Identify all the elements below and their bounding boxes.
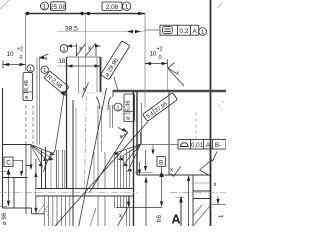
dim frame dia 16,46 vertical left <box>23 73 33 101</box>
svg-text:x: x <box>79 46 82 52</box>
svg-text:x: x <box>83 87 86 93</box>
boss left edge <box>66 57 68 188</box>
boss right edge <box>100 57 102 92</box>
svg-text:1: 1 <box>218 214 225 218</box>
symmetry symbol <box>163 27 173 34</box>
chamfer callout left on boss top <box>67 44 73 47</box>
chamfer callout right on boss top <box>95 44 101 47</box>
GDT top leader <box>145 29 160 31</box>
dim frame 5,4x37,98 rotated <box>143 93 178 122</box>
svg-text:B-: B- <box>215 142 221 149</box>
long leader diagonal D2 <box>79 88 107 226</box>
chamfer x mark left top <box>39 56 45 59</box>
body verticals left pair <box>41 150 43 189</box>
dim frame dia 29,98 rotated steep <box>101 41 130 80</box>
balloon 1 after GDT <box>199 28 207 36</box>
dia 96 dimension <box>0 171 7 173</box>
dim arrow right <box>138 12 145 16</box>
surface x mark on shoulder <box>82 83 89 98</box>
left 10 dimension line <box>3 64 26 66</box>
extension dashes above frame <box>195 112 197 138</box>
svg-text:1: 1 <box>116 105 119 111</box>
svg-text:1: 1 <box>43 3 47 10</box>
svg-text:0: 0 <box>20 55 23 61</box>
body verticals right group2 <box>114 152 116 208</box>
38,5 arrows <box>127 30 133 33</box>
balloon 1 for R2,98 <box>41 66 48 73</box>
axis centerline left <box>0 191 36 193</box>
svg-text:x: x <box>176 71 179 77</box>
svg-text:10: 10 <box>7 51 14 58</box>
left flange outline <box>3 177 28 179</box>
shoulder line left <box>62 91 67 93</box>
chamfer callout center bottom leader <box>89 133 128 194</box>
svg-text:⌀ 16,46: ⌀ 16,46 <box>24 80 30 99</box>
sheet corner diagonal top-left <box>0 0 9 9</box>
chamfer x leader right upper <box>168 63 176 74</box>
taper line left of boss <box>55 94 64 152</box>
axis centerline through band <box>36 191 137 193</box>
body verticals mid pair <box>75 108 77 188</box>
fillet arcs right of boss <box>96 97 100 109</box>
balloon 1 top-left <box>41 2 49 10</box>
datum C leader <box>13 160 23 173</box>
hidden dashed lines below left label <box>25 105 27 144</box>
sheet corner tick top-right <box>217 2 223 8</box>
long leader diagonal D1 <box>55 122 148 227</box>
body verticals dense group <box>56 150 58 189</box>
svg-text:x: x <box>120 135 123 141</box>
right fan tail <box>140 132 142 145</box>
small dim below serrated part <box>128 196 130 205</box>
38,5 dimension line <box>57 31 145 33</box>
svg-text:x: x <box>214 182 217 188</box>
svg-text:0,01: 0,01 <box>191 142 204 149</box>
svg-text:1: 1 <box>125 4 129 11</box>
center mark dashes <box>78 92 113 94</box>
svg-text:0: 0 <box>159 55 162 61</box>
GDT bottom leader <box>137 143 178 145</box>
hook at left end of thick edge <box>112 90 114 97</box>
balloon 1 boss chamfer <box>60 45 68 53</box>
slot band <box>36 189 133 196</box>
svg-text:1: 1 <box>201 29 205 36</box>
datum C arrow below box <box>7 168 11 174</box>
dim line x=35.9 <box>35 159 37 214</box>
check mark under frame <box>210 152 217 162</box>
boss top edge <box>67 56 101 58</box>
fillet arc on flange corner <box>44 151 56 172</box>
dim node dot mid-right <box>87 12 90 15</box>
dim frame 2,08 <box>102 2 122 11</box>
body verticals right group <box>93 152 95 189</box>
short horizontal near serration <box>175 197 184 199</box>
svg-text:+2: +2 <box>157 47 163 53</box>
boss inner bore walls <box>78 57 80 93</box>
balloon 1 center <box>114 103 122 111</box>
drawing frame border vertical right <box>210 0 212 226</box>
section arrow A <box>180 200 182 226</box>
svg-text:B: B <box>159 159 163 166</box>
dim node dot left <box>26 12 29 15</box>
datum B frame <box>157 157 165 167</box>
dim node dot mid-left <box>80 12 83 15</box>
GDT frame top symmetry 0,2 A <box>160 25 199 35</box>
extension line x=145 <box>144 13 146 108</box>
18 dimension line on boss <box>57 65 67 67</box>
datum B triangle <box>161 166 163 171</box>
right portion outline <box>137 174 210 176</box>
svg-text:x: x <box>45 56 48 62</box>
svg-text:x: x <box>119 214 122 220</box>
datum C frame <box>4 157 13 167</box>
main horizontal edge thick <box>113 90 226 92</box>
small step dim line right <box>133 172 153 174</box>
left leader fan <box>31 145 54 154</box>
h6 dim line <box>145 179 147 226</box>
svg-text:2,08: 2,08 <box>106 4 119 11</box>
svg-text:1: 1 <box>62 47 65 53</box>
dim 1 right bottom <box>217 197 219 205</box>
dim line x=188.6 <box>188 177 190 226</box>
R2,98 leader <box>65 91 66 94</box>
mid vertical crossing band <box>72 100 74 226</box>
balloon 1 after 2,08 <box>122 2 130 10</box>
hatch small flange <box>37 205 44 214</box>
leader from dia 29,98 <box>114 77 118 91</box>
GDT frame bottom profile 0,01 A B <box>178 140 226 150</box>
serration horizontals <box>193 182 210 184</box>
profile dome symbol <box>181 143 189 147</box>
svg-text:C: C <box>6 160 11 167</box>
svg-text:⌀ 16,46: ⌀ 16,46 <box>125 100 131 120</box>
axis centerline right <box>170 192 226 194</box>
right body edges <box>133 91 135 226</box>
svg-text:38,5: 38,5 <box>65 26 78 33</box>
left part edge verticals <box>2 94 4 100</box>
svg-text:h6: h6 <box>156 215 163 222</box>
hatch bottom right <box>193 206 210 226</box>
flange top edge <box>2 144 31 146</box>
right leader fan <box>115 145 141 154</box>
below band left comb <box>43 196 45 226</box>
chamfer callout center bottom arrow <box>121 128 127 133</box>
extension x=167.5 <box>167 63 169 90</box>
svg-text:⌀ 96: ⌀ 96 <box>1 212 8 225</box>
svg-text:1: 1 <box>43 68 46 74</box>
surface finish x mark near B <box>171 174 174 177</box>
datum B extension down <box>161 177 163 203</box>
svg-text:x: x <box>170 168 173 174</box>
svg-text:+2: +2 <box>17 47 23 53</box>
svg-text:18: 18 <box>59 59 66 65</box>
faint chevron right of border <box>219 101 225 111</box>
small dim arrows near 139 <box>139 162 141 174</box>
svg-text:25,08: 25,08 <box>50 4 66 11</box>
hatch diagonal small <box>90 208 96 226</box>
open arrow finish mark right <box>200 160 212 170</box>
svg-text:A: A <box>172 213 181 227</box>
small arrow below fan origin <box>30 145 32 169</box>
extension line x=85.5 center axis <box>85 13 87 92</box>
dim frame dia 16,46 vertical center <box>124 94 135 122</box>
dim frame R 2,98 rotated <box>44 71 69 94</box>
dim frame 25,08 <box>51 2 66 11</box>
svg-text:0,2: 0,2 <box>179 28 188 35</box>
balloon 1 left <box>27 65 34 72</box>
chamfer leader bottom <box>118 209 128 227</box>
center axis lower dashed <box>84 96 86 196</box>
right 10 dimension line <box>145 63 168 65</box>
svg-text:1: 1 <box>29 67 32 73</box>
svg-text:A: A <box>192 28 197 35</box>
extension line x=25.5 <box>25 13 27 71</box>
svg-text:x: x <box>88 46 91 52</box>
top dimension line <box>26 13 146 15</box>
